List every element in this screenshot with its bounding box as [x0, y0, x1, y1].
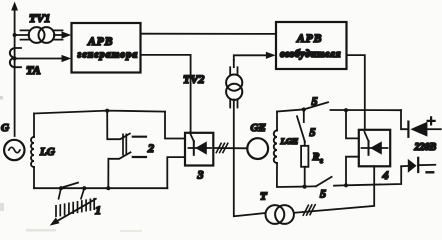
rheostat 1 (field discharge resistor, hatched) [56, 188, 94, 216]
thyristor rectifier 4 [359, 130, 390, 167]
wire LGE top [277, 109, 304, 111]
svg-text:1: 1 [95, 203, 101, 217]
plus sign [428, 117, 435, 124]
switch 5 top blade [304, 102, 328, 109]
svg-text:генератора: генератора [78, 50, 139, 61]
svg-text:г: г [320, 156, 323, 165]
wire after switch 5 top [331, 109, 402, 111]
wire loop to rectifier 3 AC side [165, 112, 185, 139]
diode VD1 to 220V plus [401, 110, 408, 129]
AVR generator block U1 [72, 23, 141, 73]
wire rectifier 3 to exciter GE with phase hatch [213, 147, 247, 149]
wire LG loop bottom [34, 187, 167, 189]
current transformer TA [10, 48, 21, 67]
svg-text:TV2: TV2 [183, 72, 204, 86]
wire TA to AVR with arrow [15, 58, 65, 60]
svg-text:TV1: TV1 [29, 11, 50, 25]
inductor LG (generator field) [31, 114, 34, 189]
wire TV1 to AVR with arrow [54, 34, 65, 36]
wire [167, 157, 185, 188]
scan speckle [0, 96, 142, 232]
svg-text:R: R [312, 152, 320, 163]
svg-text:АРВ: АРВ [87, 36, 113, 48]
minus sign [427, 171, 434, 173]
svg-text:3: 3 [197, 168, 204, 182]
node rheostat left [59, 186, 63, 190]
generator G [4, 140, 24, 160]
phase hatch on T wire [303, 205, 315, 216]
transformer T [266, 205, 294, 224]
svg-text:LG: LG [39, 146, 55, 158]
switch 5 middle (vertical) [303, 110, 305, 123]
node [344, 108, 348, 112]
wire TV2 to AVR-exc with arrow [234, 55, 266, 60]
switch 5 bottom [305, 185, 316, 187]
resistor Rг [304, 142, 306, 146]
svg-text:5: 5 [310, 125, 316, 139]
svg-text:TA: TA [26, 63, 41, 77]
node rheostat right [82, 186, 86, 190]
svg-text:2: 2 [147, 141, 154, 155]
svg-text:220В: 220В [414, 142, 437, 153]
svg-text:4: 4 [382, 168, 389, 182]
wire LG loop top [34, 111, 165, 114]
wire AVR-gen to AVR-exc [141, 33, 277, 35]
node [302, 107, 306, 111]
svg-text:АРВ: АРВ [296, 33, 322, 45]
arrow of rheostat 1 [56, 199, 96, 222]
svg-text:T: T [260, 190, 268, 202]
transformer TV2 [226, 60, 242, 108]
inductor LGE (exciter field) [274, 112, 305, 188]
wire rectifier 4 bottom to transformer T [294, 166, 374, 213]
AVR exciter block U2 [276, 22, 347, 69]
wire AVR-gen to rectifier 3 control [141, 55, 191, 133]
node Rг bottom [303, 185, 307, 189]
wire rectifier 4 lower pin to bottom bus [346, 157, 359, 186]
node [344, 183, 348, 187]
svg-text:5: 5 [312, 94, 318, 108]
node contactor 2 bottom [106, 186, 110, 190]
thyristor rectifier 3 [185, 133, 213, 166]
transformer TV1 [13, 27, 63, 43]
diode VD2 to 220V minus [401, 165, 408, 167]
svg-text:G: G [1, 122, 9, 134]
svg-text:возбудителя: возбудителя [280, 49, 341, 60]
bottom bus to minus diode [346, 166, 401, 185]
exciter GE [247, 138, 268, 159]
wire AVR-exc to rectifier 4 control [347, 55, 365, 130]
wire TV2 down to transformer T [234, 100, 266, 217]
svg-text:GE: GE [251, 122, 266, 134]
svg-text:LGE: LGE [280, 136, 299, 146]
contactor 2 [107, 111, 146, 189]
node top of contactor 2 [105, 109, 109, 113]
wire node to rectifier 4 AC top [346, 110, 359, 138]
switch blade of field breaker 1 [62, 183, 79, 188]
bus arrow (to network) [14, 9, 16, 136]
svg-text:5: 5 [320, 187, 326, 201]
